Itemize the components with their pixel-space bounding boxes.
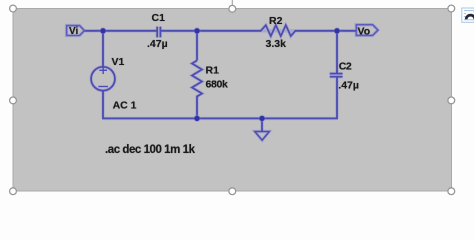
wire: bottom net [102,117,338,119]
svg-text:R2: R2 [269,15,283,27]
svg-text:.47µ: .47µ [338,79,359,91]
svg-text:3.3k: 3.3k [266,38,287,50]
junction node at Vo/C2 [334,27,341,34]
selection handle mid-left [10,97,17,104]
ground [255,118,269,140]
svg-text:.ac dec 100 1m 1k: .ac dec 100 1m 1k [105,144,196,156]
wire: R1 bottom lead [196,96,198,119]
wire: C2 bottom lead [336,77,338,119]
selection handle bottom-middle [229,188,236,195]
rotation handle stem [231,0,233,6]
net flag Vi [67,26,85,38]
wire glow underlay [67,25,378,141]
spice directive text [105,144,196,156]
schematic canvas background [13,9,452,192]
wire: C2 top lead [336,31,338,74]
wire: R1 top lead [196,31,198,61]
wire: V1 top lead [102,31,104,67]
svg-text:680k: 680k [206,79,228,91]
selection handle bottom-left [10,188,17,195]
junction node at R1 top [194,27,201,34]
resistor R2 [261,15,296,50]
junction node at Vi/V1 [100,27,107,34]
selection handle top-middle [229,5,236,12]
svg-text:.47µ: .47µ [147,38,168,50]
svg-text:Vo: Vo [358,26,371,38]
junction node at R1 bottom [194,115,201,122]
wire: R2 to Vo flag [295,30,357,32]
selection handle top-right [448,5,455,12]
resistor R1 [192,61,228,97]
wire: V1 bottom lead [102,91,104,119]
selection handle mid-right [448,97,455,104]
voltage source V1 [91,56,137,111]
capacitor C2 [330,60,359,91]
capacitor C1 [147,12,168,50]
svg-text:C1: C1 [152,12,166,24]
svg-text:V1: V1 [112,56,125,68]
net flag Vo [356,25,378,38]
svg-text:C2: C2 [339,60,352,72]
junction node at ground [259,115,266,122]
layout options button [462,8,474,22]
selection handle top-left [10,5,17,12]
selection handle bottom-right [448,188,455,195]
wire: C1 to R2 [161,30,262,32]
svg-text:AC 1: AC 1 [113,100,137,112]
svg-text:R1: R1 [206,65,220,77]
svg-text:Vi: Vi [69,26,78,37]
wire: top net Vi to C1 [84,30,157,32]
